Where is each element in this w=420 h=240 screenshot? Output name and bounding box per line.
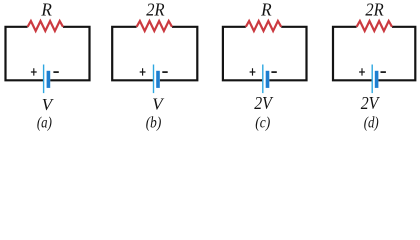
- svg-text:(b): (b): [146, 115, 162, 132]
- resistor R (circuit a): [28, 21, 63, 31]
- battery 2V (circuit d): short thick negative plate: [375, 71, 379, 88]
- polarity + sign (circuit b): [140, 68, 146, 75]
- svg-text:2V: 2V: [254, 93, 273, 113]
- resistor 2R (circuit d): [357, 21, 392, 31]
- wire: circuit (b) right loop (top-right, right side, bottom-right): [160, 27, 198, 81]
- svg-text:(d): (d): [364, 115, 379, 132]
- wire: circuit (b) left loop (top-left, left side, bottom-left): [112, 27, 153, 81]
- svg-text:(c): (c): [255, 115, 270, 132]
- wire: circuit (c) right loop (top-right, right side, bottom-right): [269, 27, 306, 81]
- polarity + sign (circuit a): [31, 68, 37, 75]
- polarity + sign (circuit d): [359, 68, 365, 75]
- svg-text:V: V: [42, 95, 55, 114]
- svg-text:2R: 2R: [365, 0, 383, 19]
- wire: circuit (d) right loop (top-right, right side, bottom-right): [378, 27, 415, 81]
- resistor R (circuit c): [246, 21, 281, 31]
- battery V (circuit b): long thin positive plate: [153, 65, 154, 94]
- battery 2V (circuit c): long thin positive plate: [262, 65, 263, 94]
- svg-text:R: R: [40, 0, 51, 19]
- battery 2V (circuit d): long thin positive plate: [372, 65, 373, 94]
- wire: circuit (c) left loop (top-left, left side, bottom-left): [223, 27, 262, 81]
- wire: circuit (a) right loop (top-right, right side, bottom-right): [50, 27, 89, 81]
- svg-text:R: R: [260, 0, 271, 19]
- battery 2V (circuit c): short thick negative plate: [266, 71, 270, 88]
- polarity + sign (circuit c): [250, 68, 256, 75]
- battery V (circuit b): short thick negative plate: [156, 71, 160, 88]
- polarity − sign (circuit b): [162, 71, 167, 73]
- svg-text:2V: 2V: [361, 93, 380, 113]
- wire: circuit (a) left loop (top-left, left side, bottom-left): [6, 27, 44, 81]
- polarity − sign (circuit c): [271, 71, 276, 73]
- polarity − sign (circuit a): [53, 71, 58, 73]
- svg-text:(a): (a): [37, 115, 52, 132]
- battery V (circuit a): long thin positive plate: [43, 65, 44, 94]
- svg-text:V: V: [152, 94, 165, 113]
- wire: circuit (d) left loop (top-left, left side, bottom-left): [333, 27, 372, 81]
- svg-text:2R: 2R: [146, 0, 164, 19]
- battery V (circuit a): short thick negative plate: [47, 71, 51, 88]
- polarity − sign (circuit d): [381, 71, 386, 73]
- resistor 2R (circuit b): [137, 21, 172, 31]
